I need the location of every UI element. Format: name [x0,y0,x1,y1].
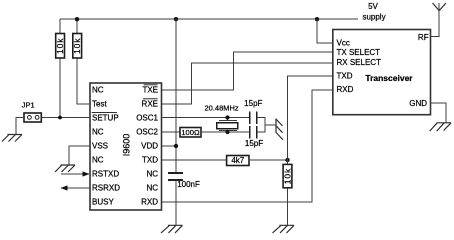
ground crystal caps (rotated) [276,119,283,140]
wire TXE to TX SELECT [162,52,333,90]
wire TXD stub to 4k7 [162,159,227,161]
wire Vcc drop [317,19,333,43]
svg-text:Vcc: Vcc [337,39,350,48]
svg-text:GND: GND [409,99,427,108]
wire 100nF to ground [175,180,177,225]
wire RXD net [162,90,333,202]
wire RF to antenna [431,3,440,37]
svg-text:RF: RF [418,33,429,42]
overline SETUP [92,112,117,114]
svg-text:TX SELECT: TX SELECT [337,48,381,57]
op IC I9600 box [90,83,162,210]
svg-text:100nF: 100nF [177,180,200,189]
svg-text:RX SELECT: RX SELECT [337,58,382,67]
capacitor C3 100nF [168,173,183,180]
junction dot rail/Vcc drop [315,17,319,21]
ground 10k [273,225,295,233]
wire TXD riser to transceiver [288,76,333,160]
svg-text:100Ω: 100Ω [181,128,200,137]
transceiver pin labels [337,33,429,108]
svg-text:RXD: RXD [337,85,354,94]
wire resistor R2 bottom to Test pin [77,58,90,104]
connector JP1 [22,101,42,123]
wire 5V vertical drop to 100nF [175,19,177,173]
svg-text:VDD: VDD [141,142,158,151]
overline TXE [144,84,158,86]
junction dot SETUP/R1 [58,116,62,120]
svg-text:RXD: RXD [141,198,158,207]
junction dot OSC1/crystal [225,115,229,119]
label 5V supply [362,2,385,22]
wire VDD to 5V drop [162,145,177,147]
wire resistor R1 bottom to SETUP net [59,58,61,118]
junction dot VDD [174,144,178,148]
svg-text:JP1: JP1 [22,101,35,110]
svg-text:NC: NC [146,184,158,193]
wire OSC1 net [162,117,250,119]
resistor R2 10k [72,34,82,59]
svg-text:NC: NC [92,156,104,165]
wire OSC2 stub to 100ohm [162,131,181,133]
ground VSS [55,165,75,172]
wire GND to ground [431,103,446,123]
svg-text:TXD: TXD [142,156,158,165]
wire junction down to 10k [287,160,289,164]
svg-text:RSTXD: RSTXD [92,170,119,179]
svg-text:RSRXD: RSRXD [92,184,120,193]
ground transceiver [430,123,451,131]
svg-text:TXE: TXE [142,86,158,95]
capacitor C2 15pF bottom [250,126,257,139]
wire caps to ground [257,118,265,133]
junction dot rail/R2 [75,17,79,21]
wire 5V rail [60,18,358,20]
wire resistor R1 top drop [59,19,61,33]
wire resistor R2 top drop [76,19,78,33]
svg-text:VSS: VSS [92,142,108,151]
ground 100nF [161,225,183,233]
svg-text:NC: NC [92,128,104,137]
antenna [433,3,446,11]
wire RSRXD with arrow out [61,185,91,190]
ground JP1 [2,135,22,142]
svg-text:SETUP: SETUP [92,114,119,123]
svg-text:I9600: I9600 [121,134,131,157]
svg-text:Test: Test [92,100,107,109]
resistor R1 10k [55,34,65,59]
wire RSTXD with arrow into IC [61,171,90,176]
svg-text:NC: NC [92,86,104,95]
svg-text:4k7: 4k7 [231,156,244,165]
svg-text:5V: 5V [368,2,378,11]
svg-text:Transceiver: Transceiver [365,73,413,83]
junction dot TXD [285,158,289,162]
junction dot rail/VDD drop [174,17,178,21]
svg-text:OSC1: OSC1 [136,114,158,123]
svg-text:15pF: 15pF [245,139,263,148]
svg-text:RXE: RXE [142,100,158,109]
svg-text:10k: 10k [283,168,293,184]
wire 4k7 to junction [249,159,288,161]
wire VSS to ground [69,146,90,165]
overline RXE [143,98,158,100]
crystal Q1 20.48MHz [217,118,238,133]
transceiver module box [333,30,431,115]
IC right pin labels [136,86,158,207]
svg-text:15pF: 15pF [244,99,262,108]
junction dot OSC2/crystal [225,130,229,134]
svg-text:20.48MHz: 20.48MHz [205,104,239,113]
capacitor C1 15pF top [250,112,257,125]
svg-text:10k: 10k [72,38,82,54]
wire RXE to RX SELECT [162,63,333,104]
svg-text:NC: NC [146,170,158,179]
svg-text:TXD: TXD [337,71,353,80]
svg-text:supply: supply [362,13,385,22]
IC left pin labels [92,86,120,207]
svg-text:OSC2: OSC2 [136,128,158,137]
wire OSC2 net [201,131,250,133]
wire 10k to ground [287,188,289,226]
resistor R3 4k7 [227,156,249,166]
svg-text:10k: 10k [55,38,65,54]
wire JP1 to SETUP pin [41,117,90,119]
svg-text:BUSY: BUSY [92,198,114,207]
resistor 100ohm [180,128,201,138]
resistor R4 10k [283,164,293,187]
wire JP1 to ground [16,118,24,135]
